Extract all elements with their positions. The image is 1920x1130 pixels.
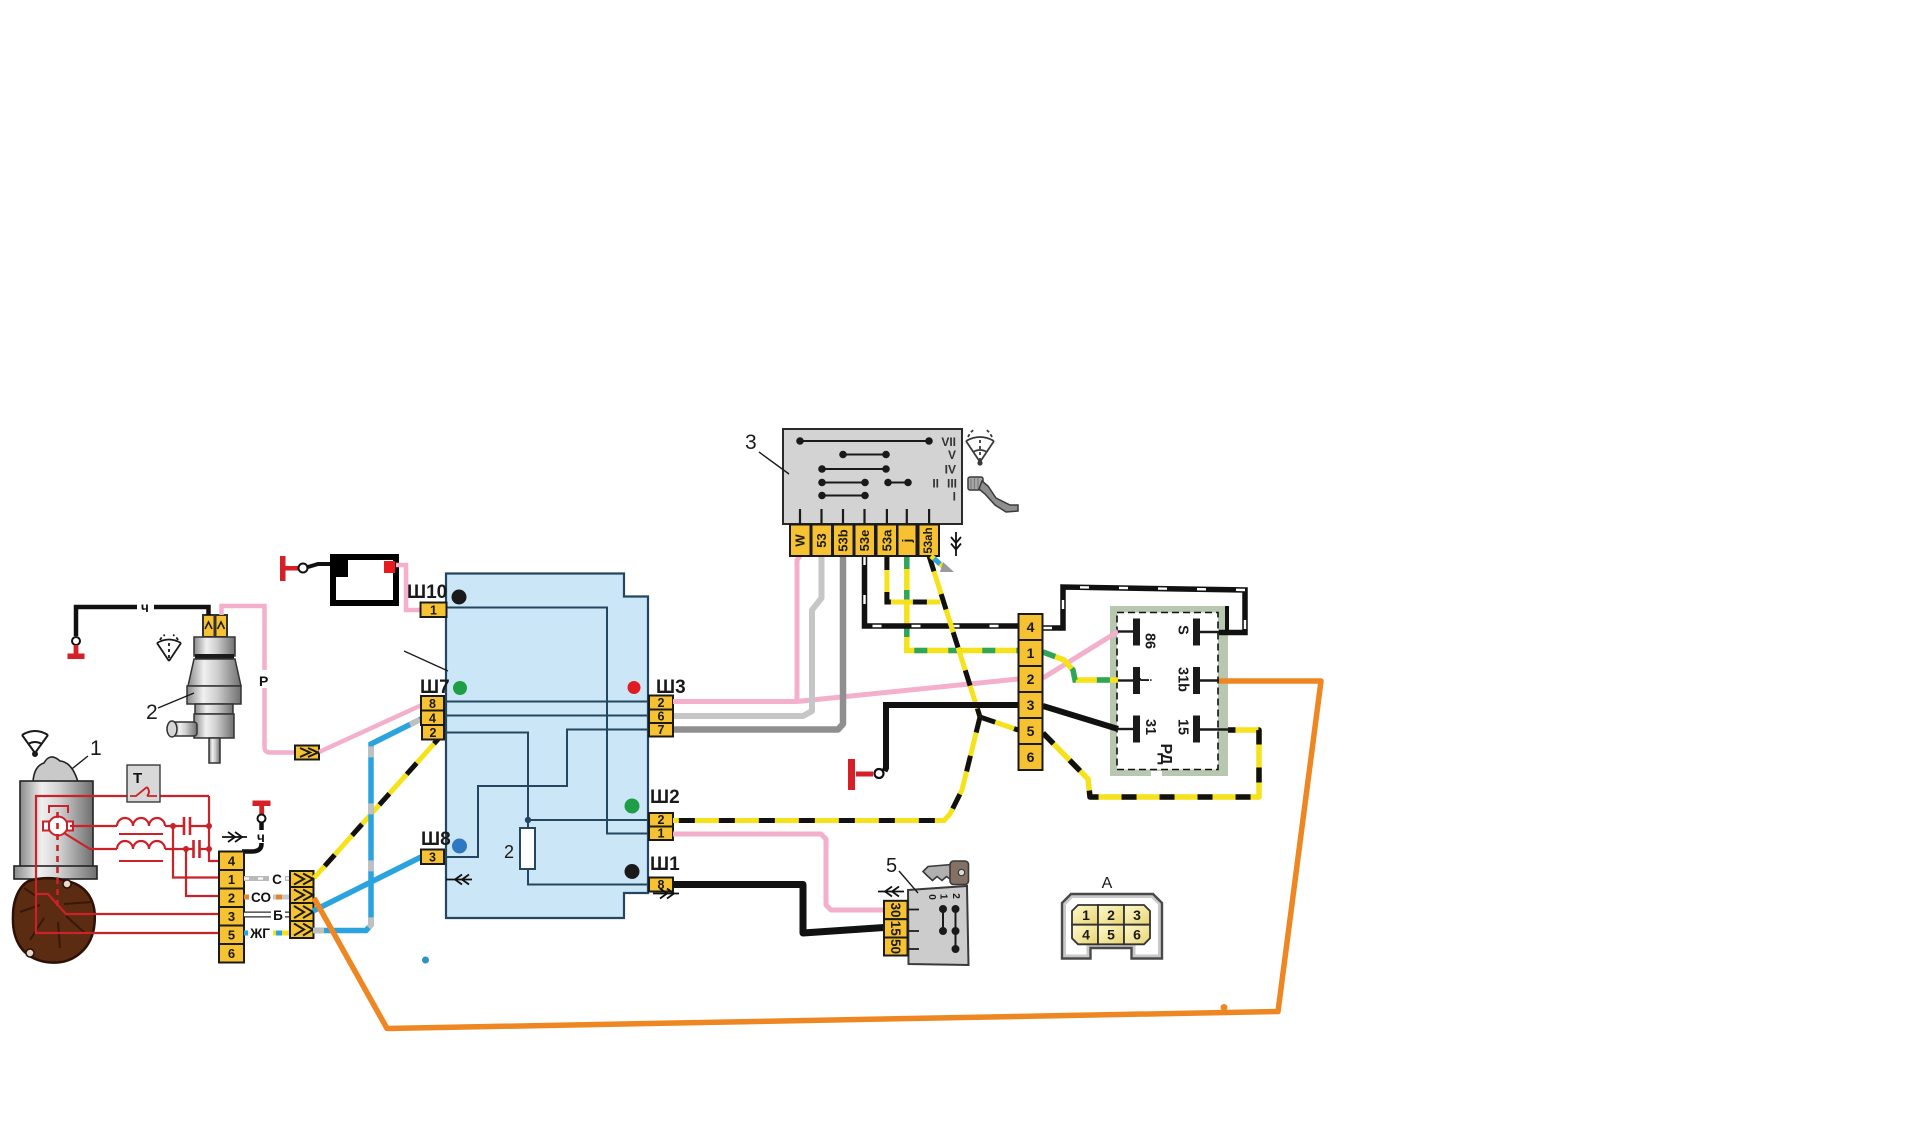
wire yellow-black column pin 5 to relay 15 [1043, 730, 1259, 797]
label Ш2 [650, 787, 680, 808]
connector Ш2 pins 2,1 [649, 813, 673, 841]
wire black battery to ground clip [308, 564, 332, 567]
connector A outer shell [1062, 894, 1162, 959]
internal link Ш7-4 to Ш3-6 [446, 715, 649, 717]
internal link Ш10-1 to Ш2-1 [447, 608, 649, 834]
ground symbol near relay area [848, 759, 884, 790]
connector Ш1 pin 8 [649, 878, 673, 893]
label 3 (switch) [745, 431, 789, 474]
svg-text:ЖГ: ЖГ [249, 926, 270, 941]
svg-text:Ш2: Ш2 [650, 787, 680, 808]
ignition switch contact stubs [908, 910, 919, 950]
label Ш1 [650, 854, 680, 875]
svg-text:86: 86 [1142, 633, 1158, 649]
svg-text:5: 5 [228, 928, 235, 943]
leader line mounting block [404, 651, 448, 671]
svg-text:j: j [899, 539, 914, 544]
wire orange connector 2 to relay 31b [314, 681, 1321, 1029]
battery GB [333, 557, 396, 603]
switch contact VII [797, 438, 932, 444]
internal link Ш3-7 to Ш8-3 [445, 730, 649, 858]
lever icon near switch [968, 477, 1018, 512]
wiper motor 1 body [14, 757, 97, 879]
svg-text:2: 2 [504, 842, 514, 862]
svg-text:3: 3 [228, 909, 235, 924]
wire red armature to thermal switch line [36, 796, 209, 894]
svg-text:5: 5 [1107, 927, 1115, 943]
svg-text:53: 53 [814, 533, 829, 547]
svg-text:1: 1 [430, 604, 437, 618]
fuse 2 in mounting block [504, 817, 535, 869]
svg-text:15: 15 [888, 921, 903, 937]
terminal W [790, 525, 811, 557]
switch contact III [885, 480, 911, 486]
wire pink connector to Ш7 pin 8 [319, 704, 424, 752]
svg-text:2: 2 [228, 891, 235, 906]
chevron connector 4 (ЖГ / blue-gray) [290, 921, 314, 938]
wire ЖГ motor pin 5 to connector [244, 926, 290, 941]
switch 3 body [783, 429, 962, 524]
svg-text:30: 30 [888, 902, 903, 917]
svg-text:T: T [133, 770, 142, 787]
svg-text:V: V [948, 448, 956, 462]
chevron connector 2 (СО / orange) [290, 887, 314, 903]
wiper washer icon near switch [966, 429, 994, 466]
mounting block (fuse/relay box) [446, 574, 648, 919]
terminal 53ah [919, 525, 940, 557]
svg-text:7: 7 [658, 723, 665, 737]
capacitor C2 [183, 840, 212, 858]
arrow symbol near Ш8 [446, 875, 472, 885]
svg-text:Ш8: Ш8 [421, 829, 451, 850]
wire gray switch 53 to Ш3-6 [674, 556, 822, 716]
svg-text:6: 6 [228, 946, 235, 961]
svg-text:Р: Р [259, 673, 268, 689]
switch contact II [819, 480, 868, 486]
internal link fuse to Ш1-8 [528, 820, 649, 885]
marker dot Ш7 [453, 681, 467, 695]
svg-text:W: W [793, 534, 808, 547]
svg-text:4: 4 [1027, 619, 1035, 635]
wire ч motor pin 4 to ground [242, 823, 265, 852]
wire blue Ш8 pin 3 to connector 3 [313, 856, 423, 911]
wire СО motor pin 2 to connector [244, 890, 290, 905]
terminal 53b [833, 525, 854, 557]
wire yellow-black node to column pin 5 [980, 717, 1018, 730]
wire black-white switch 53e to column pin 4 [865, 556, 1019, 626]
svg-text:53e: 53e [857, 530, 872, 552]
svg-text:Ш7: Ш7 [420, 677, 450, 698]
svg-text:II: II [932, 477, 939, 491]
connector column pins 4,1,2,3,5,6 [1019, 614, 1043, 770]
wire red to motor pin 2 [186, 849, 219, 896]
relay pin 31 [1118, 716, 1158, 743]
relay pin 86 [1118, 619, 1158, 650]
wire yellow-green switch j to column pin 1 [907, 556, 1018, 651]
relay pin S [1175, 619, 1220, 646]
relay pin 31b [1175, 667, 1220, 694]
connector Ш7 pins 8,4,2 [421, 696, 444, 740]
label 2 (washer pump) [146, 693, 194, 724]
ignition terminal 50 [884, 938, 908, 956]
terminal 53a [877, 525, 898, 557]
svg-text:ч: ч [141, 600, 149, 615]
connector Ш8 pin 3 [421, 850, 444, 865]
relay РД box [1110, 606, 1228, 776]
svg-text:Ш10: Ш10 [407, 582, 447, 603]
svg-text:S: S [1175, 625, 1191, 635]
wire yellow-black switch 53a branch [887, 556, 940, 602]
switch contact IV [819, 466, 889, 472]
svg-text:2: 2 [950, 893, 961, 899]
svg-text:1: 1 [938, 894, 949, 900]
svg-text:6: 6 [1027, 749, 1035, 765]
svg-text:2: 2 [658, 813, 665, 827]
svg-text:Ш3: Ш3 [656, 677, 686, 698]
marker dot Ш1 [625, 864, 640, 879]
marker dot Ш3 [628, 681, 641, 694]
connector A cell 6 [1124, 925, 1150, 945]
wire yellow-black node to Ш2-2 [673, 717, 980, 821]
svg-text:3: 3 [745, 431, 757, 454]
switch position numerals [932, 435, 957, 504]
svg-text:Б: Б [273, 908, 283, 923]
switch terminal stubs [800, 509, 929, 524]
ignition switch 5 body [908, 886, 969, 965]
terminal 53 [812, 525, 833, 557]
connector block of motor (pins 4,1,2,3,5,6) [219, 852, 244, 963]
svg-text:5: 5 [886, 855, 897, 877]
svg-text:1: 1 [90, 737, 102, 760]
svg-text:2: 2 [146, 701, 158, 724]
inductor L1 [70, 818, 184, 834]
arrow symbol near Ш1 [653, 889, 679, 899]
svg-text:2: 2 [658, 696, 665, 710]
wire Б motor pin 3 to connector [244, 908, 290, 923]
svg-text:1: 1 [1082, 907, 1090, 923]
arrow symbol right of motor pin 4 [222, 832, 247, 842]
decor blue dot [422, 957, 429, 964]
wiper icon near motor [22, 731, 48, 757]
wire pink battery to Ш10 pin 1 [396, 565, 421, 610]
svg-text:VII: VII [941, 435, 956, 449]
svg-text:РД: РД [1157, 743, 1174, 765]
capacitor C1 [170, 817, 212, 835]
svg-text:4: 4 [429, 712, 436, 726]
svg-text:4: 4 [1082, 927, 1090, 943]
switch contact V [840, 452, 889, 458]
commutator of motor 1 [43, 806, 73, 836]
terminal j [898, 525, 917, 557]
wire black column pin 3 to relay 31 [1043, 706, 1118, 729]
label РД [1157, 743, 1174, 765]
connector Ш10 pin 1 [421, 603, 447, 618]
connector A cell 4 [1072, 925, 1098, 945]
ground symbol near motor pin 4 [253, 801, 271, 823]
wire black Ш1-8 to ignition 15 [673, 885, 884, 934]
svg-text:2: 2 [430, 726, 437, 740]
wire dark gray switch 53b to Ш3-7 [674, 556, 843, 730]
svg-text:С: С [272, 872, 282, 887]
svg-text:I: I [953, 490, 956, 504]
svg-text:2: 2 [1027, 671, 1035, 687]
connector A cell 2 [1098, 905, 1124, 925]
svg-text:6: 6 [1133, 927, 1141, 943]
label Ш3 [656, 677, 686, 698]
washer spray icon [157, 635, 181, 661]
wire pink Ш2-1 to ignition 30 [673, 834, 884, 910]
svg-text:A: A [1102, 875, 1113, 892]
label 1 (wiper motor) [58, 737, 102, 780]
gearbox of motor 1 [13, 878, 95, 963]
chevron connector 3 (Б / blue) [290, 903, 314, 921]
svg-text:4: 4 [228, 854, 236, 869]
wire yellow-green column pin 1 to relay j [1043, 652, 1118, 680]
wire red to motor pin 4 [209, 796, 219, 861]
svg-text:III: III [947, 477, 957, 491]
internal link Ш7-2 to fuse node to Ш2-2 [445, 733, 649, 821]
svg-text:2: 2 [1107, 907, 1115, 923]
thermal switch T [127, 765, 160, 802]
svg-text:3: 3 [1027, 697, 1035, 713]
chevron connector 1 (С / yellow-black) [290, 871, 314, 887]
wire P pink washer pump to connector [222, 606, 296, 753]
connector A cell 5 [1098, 925, 1124, 945]
svg-text:СО: СО [251, 890, 271, 905]
svg-text:8: 8 [429, 697, 436, 711]
terminal 53e [855, 525, 876, 557]
svg-text:Ш1: Ш1 [650, 854, 680, 875]
orange junction nub [1221, 1004, 1228, 1011]
wire pink column pin 2 to relay 86 [1043, 632, 1118, 679]
svg-text:31b: 31b [1175, 667, 1191, 692]
wire С motor pin 1 to connector [244, 871, 290, 887]
ignition switch position digits [926, 893, 961, 900]
svg-text:53ah: 53ah [923, 527, 935, 553]
parking switch wiring in gearbox [36, 812, 219, 933]
wire pink junction to column pin 2 [797, 679, 1018, 702]
label Ш7 [420, 677, 450, 698]
svg-text:1: 1 [1027, 645, 1035, 661]
wire ч washer pump to ground [76, 600, 209, 636]
label 5 (ignition switch) [886, 855, 918, 893]
ground (battery negative) [280, 556, 308, 581]
inductor L2 [64, 833, 194, 861]
relay pin j [1118, 667, 1154, 694]
wire yellow-blue stub from 53ah with arrow [931, 556, 954, 572]
ignition switch contacts [940, 906, 959, 952]
key icon [923, 861, 969, 885]
svg-text:0: 0 [926, 894, 937, 900]
wire yellow-black switch 53ah down to node [929, 556, 980, 717]
wire black column pin 3 to ground [885, 705, 1019, 771]
svg-text:1: 1 [228, 872, 235, 887]
chevron connector washer (P wire) [295, 746, 319, 760]
switch contact I [819, 493, 868, 499]
label A [1102, 875, 1113, 892]
arrow symbol near ignition switch [878, 887, 904, 897]
arrow symbol below 53ah [951, 532, 961, 556]
label Ш8 [421, 829, 451, 850]
wire black-white column pin 4 to relay S [1043, 587, 1245, 633]
svg-text:j: j [1139, 677, 1154, 682]
svg-text:1: 1 [658, 827, 665, 841]
internal link Ш7-8 to Ш3-2 [446, 701, 649, 703]
svg-text:53a: 53a [879, 529, 894, 551]
wire red to motor pin 1 [173, 826, 219, 878]
connector Ш3 pins 2,6,7 [649, 696, 673, 738]
wire blue-gray Ш7 pin 4 to connector 4 [313, 718, 424, 931]
svg-text:6: 6 [658, 710, 665, 724]
svg-text:50: 50 [888, 939, 903, 954]
relay pin 15 [1175, 716, 1230, 743]
svg-text:3: 3 [1133, 907, 1141, 923]
wire yellow-black Ш7 pin 2 to connector 1 [314, 733, 444, 879]
marker dot Ш10 [452, 590, 467, 605]
ignition terminal 15 [884, 919, 908, 937]
svg-text:31: 31 [1142, 719, 1158, 735]
washer pump 2 body [167, 615, 241, 763]
wire pink Ш3-2 to switch W [673, 556, 800, 703]
connector A cell 1 [1072, 905, 1098, 925]
ground symbol washer pump [68, 637, 85, 659]
label Ш10 [407, 582, 447, 603]
marker dot Ш8 [452, 839, 467, 854]
svg-text:IV: IV [945, 463, 956, 477]
svg-text:3: 3 [429, 851, 436, 865]
svg-text:5: 5 [1027, 723, 1035, 739]
svg-text:ч: ч [257, 830, 265, 845]
ignition terminal 30 [884, 901, 908, 919]
marker dot Ш2 [625, 799, 640, 814]
connector A cell 3 [1124, 905, 1150, 925]
svg-text:15: 15 [1175, 719, 1191, 735]
svg-text:53b: 53b [836, 529, 851, 551]
